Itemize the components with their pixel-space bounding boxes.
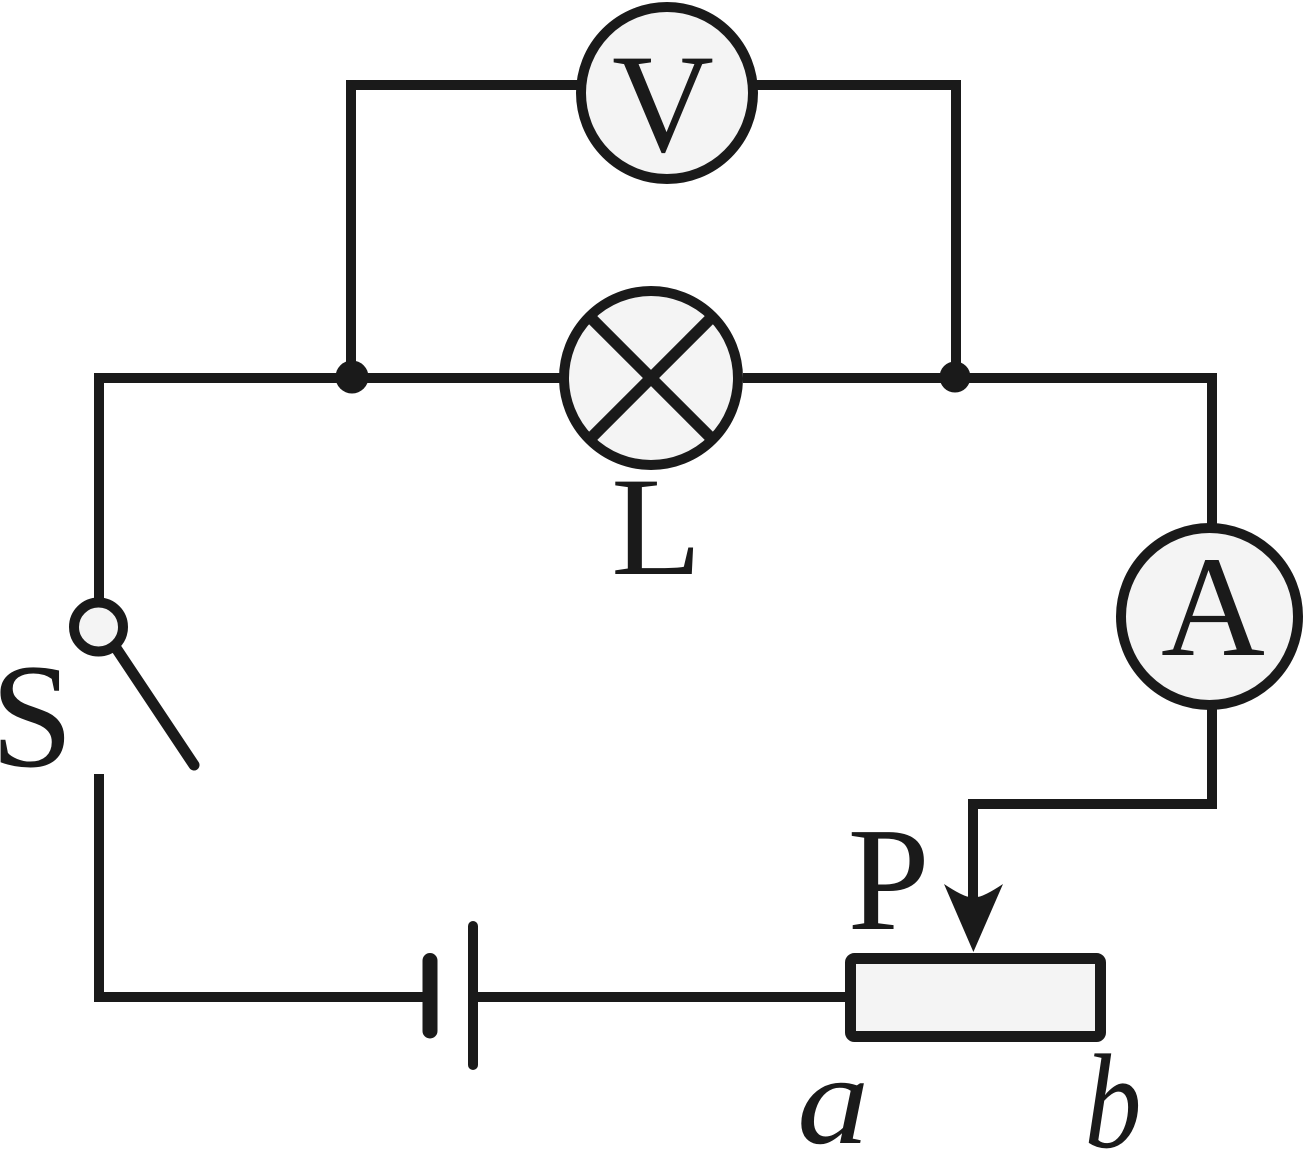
rheostat slider arrowhead (944, 884, 1003, 952)
battery negative plate (short thick) (423, 961, 438, 1032)
wire ammeter bottom to rheostat slider corner (973, 708, 1212, 900)
wire top-left: junction up and across to voltmeter (351, 85, 577, 378)
svg-text:a: a (797, 1029, 869, 1153)
svg-text:L: L (611, 450, 702, 606)
wire battery to rheostat (478, 992, 848, 1002)
switch S lever (116, 648, 194, 765)
lamp X cross stroke 1 (588, 315, 714, 441)
svg-text:b: b (1085, 1028, 1142, 1153)
svg-text:P: P (848, 798, 930, 962)
wire middle-right: lamp to corner and down to ammeter (743, 378, 1212, 525)
rheostat P body box (851, 959, 1101, 1037)
node junction dot left (336, 361, 369, 394)
lamp X cross stroke 2 (588, 315, 714, 441)
wire middle-left: switch top up and right to lamp (99, 378, 560, 600)
svg-text:A: A (1161, 528, 1265, 687)
wire bottom-left: switch bottom down and right to battery (99, 774, 423, 997)
switch S terminal circle (74, 603, 123, 652)
voltmeter U1 circle (581, 7, 753, 179)
svg-text:S: S (0, 634, 73, 799)
lamp L circle (564, 291, 738, 465)
svg-text:V: V (612, 26, 714, 182)
battery positive plate (long thin) (468, 926, 478, 1065)
node junction dot right (940, 362, 971, 393)
ammeter U2 circle (1121, 528, 1298, 705)
wire top-right: voltmeter across and down to junction (757, 85, 956, 378)
